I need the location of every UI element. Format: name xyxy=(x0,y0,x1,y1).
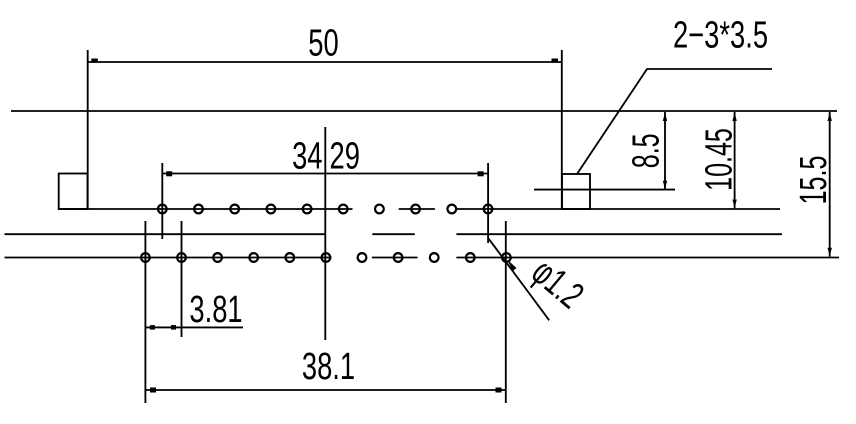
svg-text:3.81: 3.81 xyxy=(189,289,242,331)
hole bottom row pin 6 xyxy=(322,253,331,262)
hole bottom row pin 8 xyxy=(394,253,403,262)
dim 38.1 dimension line xyxy=(145,389,505,391)
hole bottom row pin 2 xyxy=(177,253,186,262)
dim 50 right extension line xyxy=(561,50,563,209)
dim 34.29 right extension line xyxy=(487,163,489,243)
dim 8.5 top arrow xyxy=(663,113,667,122)
svg-text:50: 50 xyxy=(308,22,338,64)
hole top row pin 2 xyxy=(194,205,203,214)
dim 3.81 right dot arrow xyxy=(171,325,176,330)
left mounting tab xyxy=(59,174,88,210)
wire right inner ledge line xyxy=(534,189,675,191)
dim 38.1 left dot arrow xyxy=(150,388,156,393)
dim 3.81 dimension line xyxy=(145,326,243,328)
hole bottom row pin 11 xyxy=(502,253,511,262)
wire top body line xyxy=(11,110,837,112)
hole bottom row pin 3 xyxy=(213,253,222,262)
wire middle body line xyxy=(5,233,783,235)
hole top row pin 9 xyxy=(447,205,456,214)
wire bottom pin-row line xyxy=(5,257,840,259)
hole bottom row pin 5 xyxy=(285,253,294,262)
dim 10.45 top arrow xyxy=(732,113,736,122)
hole top row pin 7 xyxy=(375,205,384,214)
dim 15.5 top arrow xyxy=(828,113,832,122)
svg-text:8.5: 8.5 xyxy=(624,133,666,168)
dim 3.81 left extension line xyxy=(144,221,146,403)
dim 3.81 right extension line xyxy=(181,221,183,337)
svg-text:10.45: 10.45 xyxy=(697,128,739,191)
hole top row pin 1 xyxy=(158,205,167,214)
dim 34.29 left dot arrow xyxy=(166,171,172,176)
hole bottom row pin 1 xyxy=(141,253,150,262)
hole top row pin 6 xyxy=(339,205,348,214)
dim 10.45 bottom arrow xyxy=(732,200,736,209)
dim 8.5 dimension line xyxy=(664,112,666,190)
dim 3.81 left dot arrow xyxy=(150,325,155,330)
dim 34.29 left extension line xyxy=(161,163,163,239)
dim 34.29 dimension line xyxy=(162,173,488,175)
leader phi 1.2 xyxy=(489,239,550,321)
dim 8.5 bottom arrow xyxy=(663,181,667,190)
hole top row pin 5 xyxy=(303,205,312,214)
svg-text:2−3*3.5: 2−3*3.5 xyxy=(673,14,768,56)
dim 10.45 dimension line xyxy=(734,112,736,208)
hole bottom row pin 9 xyxy=(430,253,439,262)
dim 50 left extension line xyxy=(87,50,89,209)
right mounting tab xyxy=(562,174,590,209)
dim 15.5 dimension line xyxy=(829,112,831,257)
dim 15.5 bottom arrow xyxy=(828,248,832,256)
dim 50 dimension line xyxy=(88,61,562,63)
leader 2-3*3.5 xyxy=(577,69,772,174)
leader phi 1.2 arrowhead xyxy=(508,260,517,271)
svg-text:38.1: 38.1 xyxy=(302,346,355,388)
dim 50 left dot arrow xyxy=(91,59,98,63)
hole bottom row pin 10 xyxy=(466,253,475,262)
svg-text:29: 29 xyxy=(330,135,360,177)
hole bottom row pin 7 xyxy=(358,253,367,262)
center line xyxy=(324,127,326,340)
hole top row pin 4 xyxy=(267,205,276,214)
hole top row pin 10 xyxy=(484,205,493,214)
dim 50 right dot arrow xyxy=(552,59,559,63)
dim 38.1 right dot arrow xyxy=(496,388,502,393)
hole bottom row pin 4 xyxy=(249,253,258,262)
dim 38.1 right extension line xyxy=(505,221,507,403)
svg-text:34: 34 xyxy=(292,135,322,177)
hole top row pin 3 xyxy=(230,205,239,214)
svg-text:15.5: 15.5 xyxy=(792,156,834,205)
wire bottom body / top pin-row line xyxy=(59,208,780,210)
hole top row pin 8 xyxy=(411,205,420,214)
dim 34.29 right dot arrow xyxy=(478,171,484,176)
